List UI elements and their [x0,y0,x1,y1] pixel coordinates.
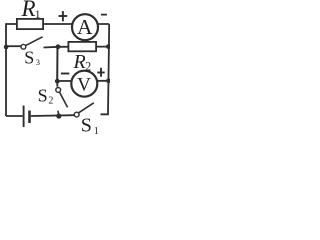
svg-text:V: V [77,75,91,96]
svg-text:R: R [21,0,36,21]
svg-text:S: S [38,85,48,105]
svg-text:2: 2 [85,59,91,73]
svg-text:S: S [24,47,34,67]
svg-text:1: 1 [94,126,99,137]
svg-text:1: 1 [35,7,41,21]
svg-text:R: R [73,51,86,73]
svg-text:2: 2 [48,96,53,107]
svg-text:S: S [81,115,92,137]
svg-text:3: 3 [36,57,40,67]
svg-text:A: A [77,15,93,39]
